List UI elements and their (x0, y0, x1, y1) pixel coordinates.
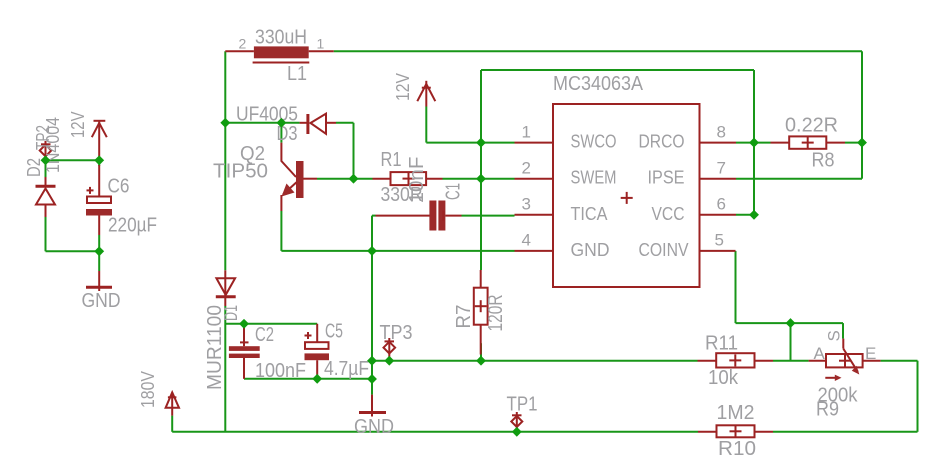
pin 5 COINV stub (700, 250, 736, 252)
transistor Q2 TIP50 (281, 143, 317, 211)
wire: pin7 IPSE feedback from x=862 (736, 178, 862, 180)
svg-text:12V: 12V (393, 73, 413, 101)
wire: feedback row y=360.7 left of R11 (372, 360, 698, 362)
svg-text:R1: R1 (381, 149, 402, 171)
supply 180V (166, 392, 179, 415)
diode D3 UF4005 (300, 114, 336, 134)
ground GND (middle) (359, 395, 386, 417)
svg-text:R8: R8 (812, 150, 835, 172)
wire: D2 vertical upper (45, 160, 47, 177)
junction: D3 cathode / Q2 collector node (276, 118, 286, 128)
wire: horizontal y=70 over IC (481, 69, 754, 71)
svg-text:330uH: 330uH (255, 27, 307, 49)
wire: D3 row left segment (225, 122, 299, 124)
testpoint TP2 (40, 141, 52, 160)
junction: TP2 / D2 node (41, 155, 51, 165)
svg-text:C1: C1 (443, 183, 465, 200)
svg-text:C5: C5 (325, 321, 343, 343)
wire: left vertical rail x=225 from D1 down to bottom rail (224, 306, 226, 432)
svg-text:R7: R7 (453, 305, 475, 329)
wire: TP2 to 12V arrow row y=160.3 (46, 159, 100, 161)
svg-text:4: 4 (522, 231, 531, 250)
svg-text:1: 1 (522, 123, 531, 142)
wire: pin5 COINV down (735, 251, 737, 323)
wire: vertical x=353.5 from D3 row to base row (353, 123, 355, 179)
svg-text:120R: 120R (485, 295, 507, 332)
svg-text:TP1: TP1 (507, 394, 538, 416)
svg-text:TIP50: TIP50 (213, 161, 268, 183)
junction: GND net / feedback row node (367, 356, 377, 366)
wire: pot S lead vertical (842, 323, 844, 339)
wire: vertical x=372 from C1 row to GND dot (371, 216, 373, 379)
resistor R1 (373, 172, 443, 185)
wire: vertical x=862 from R8 row to pin7 row (861, 143, 863, 179)
svg-text:1M2: 1M2 (717, 402, 755, 424)
wire: right vertical x=917.5 (917, 361, 919, 432)
svg-text:DRCO: DRCO (639, 132, 685, 152)
IC U1 MC34063A box (553, 104, 700, 287)
wire: 12V supply down to pin1 row (425, 107, 427, 143)
svg-text:SWEM: SWEM (571, 168, 617, 188)
wire: R11 to pot A (773, 360, 809, 362)
svg-text:1: 1 (317, 36, 325, 52)
wire: vertical x=481 from y70 down to R7 (480, 70, 482, 270)
wire: C6 bottom lead green part (98, 235, 100, 251)
pin 3 TICA stub (515, 214, 554, 216)
wire: bottom rail right of R10 (773, 431, 918, 433)
wire: horizontal y=323 to pot S (736, 322, 844, 324)
wire: R8 right to corner (845, 142, 862, 144)
pin 8 DRCO stub (700, 142, 737, 144)
junction: TP3 node (384, 356, 394, 366)
diode D1 MUR1100 (216, 270, 236, 306)
wire: C2 C5 bottom row y=378.8 (244, 378, 372, 380)
wire: pin6 VCC stub wire (736, 214, 754, 216)
wire: vertical x=790.5 to feedback row (790, 323, 792, 361)
junction: GND net / C2 C5 bottom node (367, 374, 377, 384)
wire: bottom row of left block (46, 250, 100, 252)
junction: pin8 / R8 left node (749, 138, 759, 148)
svg-text:5: 5 (715, 231, 724, 250)
supply 12V (right) (417, 81, 435, 107)
svg-text:TP3: TP3 (380, 322, 413, 344)
wire: GND mid stub below dot (371, 379, 373, 395)
svg-text:L1: L1 (287, 63, 307, 85)
wire: left GND stub (98, 251, 100, 271)
wire: Q2 collector stub (280, 123, 282, 143)
junction: R8 right / top rail node (857, 138, 867, 148)
capacitor C5 (305, 324, 330, 379)
wire: R7 bottom to feedback row (480, 343, 482, 361)
junction: 12V supply / C6 top node (94, 155, 104, 165)
svg-text:COINV: COINV (639, 240, 689, 260)
resistor R7 (474, 270, 488, 355)
ground GND (left) (86, 271, 112, 291)
wire: pin8 DRCO to R8 (736, 142, 771, 144)
svg-text:2: 2 (239, 36, 247, 52)
svg-text:180V: 180V (138, 371, 158, 408)
wire: R1 right to pin2 (443, 178, 515, 180)
svg-text:D3: D3 (277, 123, 298, 145)
supply 12V (left) (92, 121, 107, 158)
svg-text:C6: C6 (108, 176, 130, 198)
svg-text:GND: GND (82, 290, 121, 312)
wire: Q2 emitter down (280, 211, 282, 251)
svg-text:VCC: VCC (652, 204, 685, 224)
pin 2 SWEM stub (515, 178, 554, 180)
wire: pot E to right corner (881, 360, 918, 362)
diode D2 1N4004 (36, 177, 56, 217)
svg-text:TICA: TICA (571, 204, 608, 224)
pin 7 IPSE stub (700, 178, 737, 180)
svg-text:10nF: 10nF (406, 157, 428, 204)
junction: R7 / feedback row node (476, 356, 486, 366)
wire: vertical x=754 from y70 to VCC pin6 (753, 70, 755, 215)
svg-text:R10: R10 (718, 438, 756, 460)
wire: 180V supply down to bottom rail (171, 416, 173, 432)
testpoint TP3 (384, 338, 396, 361)
wire: bottom rail left of R10 (172, 431, 698, 433)
svg-text:2: 2 (522, 159, 531, 178)
junction: pin2 SWEM node (476, 174, 486, 184)
resistor R8 (771, 136, 846, 148)
junction: 180V rail / D3 cathode node (220, 118, 230, 128)
svg-text:0.22R: 0.22R (785, 115, 838, 137)
svg-text:GND: GND (571, 240, 610, 260)
junction: C2 top lead node (239, 319, 249, 329)
wire: C6 top lead green part (98, 160, 100, 166)
svg-text:R9: R9 (816, 399, 839, 421)
wire: C1 row left segment (372, 215, 376, 217)
wire: left vertical rail x=225 from L1 down to D1 (224, 51, 226, 270)
svg-text:S: S (825, 330, 844, 341)
capacitor C6 (86, 165, 112, 235)
origin cross (621, 197, 633, 199)
svg-text:R11: R11 (705, 333, 738, 355)
junction: pin1 SWCO / 12V node (476, 138, 486, 148)
pin 1 SWCO stub (515, 142, 554, 144)
svg-text:3: 3 (522, 195, 531, 214)
wire: D3 row right segment (336, 122, 354, 124)
junction: pin6 VCC node (749, 210, 759, 220)
svg-text:MC34063A: MC34063A (553, 73, 644, 95)
svg-text:MUR1100: MUR1100 (204, 305, 226, 390)
junction: C5 bottom lead node (312, 374, 322, 384)
svg-text:7: 7 (717, 159, 726, 178)
svg-text:4.7µF: 4.7µF (324, 358, 369, 380)
junction: D2 anode / C6 bottom / GND node (94, 246, 104, 256)
potentiometer R9 (809, 339, 881, 381)
svg-text:6: 6 (717, 195, 726, 214)
svg-text:12V: 12V (68, 112, 88, 139)
svg-text:220µF: 220µF (108, 215, 157, 237)
junction: Q2 emitter / C1 / pin4 GND node (367, 246, 377, 256)
svg-text:A: A (814, 344, 826, 363)
svg-text:100nF: 100nF (255, 360, 306, 382)
svg-text:C2: C2 (255, 324, 274, 346)
svg-text:GND: GND (354, 416, 394, 438)
wire: D2 vertical lower (45, 217, 47, 251)
svg-text:10k: 10k (708, 367, 739, 389)
wire: C1 right to pin3 (462, 215, 515, 217)
inductor L1 (225, 46, 333, 62)
svg-text:E: E (865, 344, 876, 363)
svg-text:8: 8 (717, 123, 726, 142)
pin 6 VCC stub (700, 214, 737, 216)
junction: COINV wire / R11-R9 node (786, 318, 796, 328)
resistor R10 (698, 425, 773, 437)
capacitor C2 (229, 324, 260, 379)
svg-text:SWCO: SWCO (571, 132, 617, 152)
wire: right vertical from top rail down to R8 row (861, 51, 863, 142)
wire: pin1 SWCO row (426, 142, 514, 144)
wire: C2 C5 top row y=323.8 (225, 323, 317, 325)
junction: TP1 / bottom rail node (512, 427, 522, 437)
svg-text:D2: D2 (24, 158, 44, 177)
wire: top rail from L1 to right corner (334, 50, 862, 52)
svg-text:IPSE: IPSE (648, 168, 685, 188)
junction: Q2 base / R1 / D3 anode node (349, 174, 359, 184)
wire: pin2 SWEM row from Q2 base to R1 (317, 178, 373, 180)
resistor R11 (698, 353, 774, 367)
pin 4 GND stub (515, 250, 554, 252)
testpoint TP1 (511, 412, 522, 432)
capacitor C1 (376, 201, 462, 231)
wire: emitter / pin4 GND row (281, 250, 514, 252)
